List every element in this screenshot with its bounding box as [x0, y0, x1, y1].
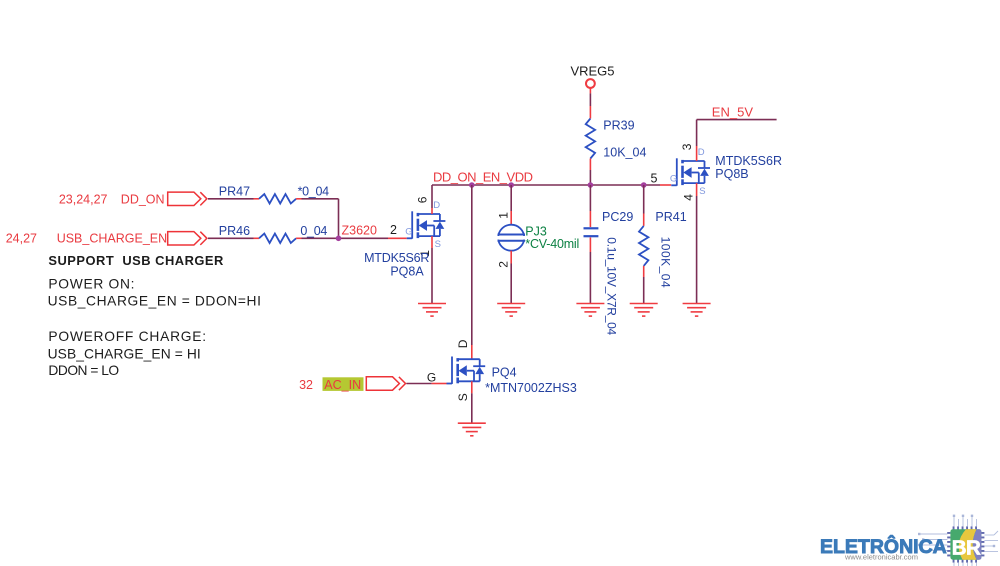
input flag AC_IN — [366, 377, 405, 390]
wire PJ3 pin 2 — [510, 251, 512, 304]
svg-text:USB_CHARGE_EN = HI: USB_CHARGE_EN = HI — [48, 346, 201, 361]
capacitor PC29 — [584, 228, 599, 236]
resistor PR41 — [639, 226, 648, 266]
svg-text:100K_04: 100K_04 — [659, 237, 673, 289]
wire PC29 top — [589, 185, 591, 227]
wire PQ4 drain — [471, 185, 473, 359]
svg-text:USB_CHARGE_EN = DDON=HI: USB_CHARGE_EN = DDON=HI — [48, 293, 262, 308]
svg-text:32: 32 — [299, 378, 313, 392]
svg-text:www.eletronicabr.com: www.eletronicabr.com — [844, 553, 918, 562]
wire PQ8B drain to EN_5V — [697, 120, 777, 161]
svg-text:1: 1 — [497, 212, 511, 219]
svg-text:USB_CHARGE_EN: USB_CHARGE_EN — [57, 231, 167, 245]
svg-text:S: S — [456, 393, 470, 401]
svg-text:AC_IN: AC_IN — [324, 378, 361, 392]
svg-text:DD_ON_EN_VDD: DD_ON_EN_VDD — [433, 170, 533, 185]
svg-text:G: G — [670, 173, 677, 184]
transistor PQ8B — [671, 158, 710, 185]
wire VREG5 to PR39 — [589, 88, 591, 119]
wire PQ8A drain — [431, 185, 433, 214]
svg-text:VREG5: VREG5 — [570, 64, 614, 79]
logo chip pins — [947, 526, 984, 562]
svg-text:*0_04: *0_04 — [298, 184, 330, 198]
svg-text:D: D — [456, 339, 470, 348]
wire PR47 to corner — [296, 199, 338, 239]
highlight AC_IN — [323, 377, 364, 391]
svg-text:S: S — [699, 186, 705, 197]
jumper PJ3 — [497, 225, 526, 251]
svg-text:PC29: PC29 — [602, 210, 633, 224]
svg-text:Z3620: Z3620 — [342, 224, 377, 238]
wire PR46 to PQ8A gate — [296, 237, 407, 239]
ground PQ4 — [458, 423, 486, 436]
svg-text:DDON = LO: DDON = LO — [48, 363, 119, 378]
svg-text:2: 2 — [390, 223, 397, 237]
wire PQ8A source — [431, 236, 433, 303]
ground PQ8A — [418, 304, 446, 317]
svg-text:PR46: PR46 — [219, 224, 250, 238]
svg-text:G: G — [405, 226, 412, 237]
svg-text:PR41: PR41 — [655, 210, 686, 224]
wire AC_IN to PQ4 gate — [406, 383, 446, 385]
junction at PJ3 — [508, 182, 514, 188]
ground PJ3 — [497, 304, 525, 317]
logo chip BR — [950, 529, 981, 560]
svg-text:23,24,27: 23,24,27 — [59, 192, 108, 206]
wire PQ8B source — [696, 183, 698, 303]
wire main net DD_ON_EN_VDD — [432, 184, 671, 186]
transistor PQ8A — [407, 211, 446, 238]
svg-text:0_04: 0_04 — [300, 224, 327, 238]
junction Z3620 — [336, 236, 342, 242]
svg-text:24,27: 24,27 — [6, 231, 37, 245]
svg-text:EN_5V: EN_5V — [712, 105, 754, 120]
svg-text:2: 2 — [497, 261, 511, 268]
svg-text:D: D — [433, 200, 440, 211]
svg-text:PR39: PR39 — [603, 119, 634, 133]
svg-text:10K_04: 10K_04 — [603, 146, 646, 160]
svg-text:DD_ON: DD_ON — [121, 192, 165, 206]
svg-text:6: 6 — [416, 196, 430, 203]
svg-text:S: S — [435, 239, 441, 250]
resistor PR47 — [259, 194, 296, 203]
svg-text:PQ8B: PQ8B — [715, 167, 748, 181]
resistor PR46 — [259, 234, 296, 243]
junction at PC29 — [588, 182, 594, 188]
power symbol VREG5 circle — [586, 79, 595, 88]
wire PC29 bottom — [589, 238, 591, 304]
logo trace pads — [918, 515, 995, 552]
ground PR41 — [630, 304, 658, 317]
wire PJ3 pin 1 — [510, 185, 512, 225]
input flag DD_ON — [168, 192, 207, 205]
svg-text:PR47: PR47 — [219, 184, 250, 198]
svg-text:POWEROFF CHARGE:: POWEROFF CHARGE: — [48, 329, 206, 344]
svg-text:3: 3 — [680, 143, 694, 150]
svg-text:*CV-40mil: *CV-40mil — [525, 237, 579, 251]
wire PQ4 source — [471, 381, 473, 423]
ground PQ8B — [683, 304, 711, 317]
svg-text:D: D — [698, 147, 705, 158]
svg-text:PQ4: PQ4 — [492, 366, 517, 380]
input flag USB_CHARGE_EN — [168, 232, 207, 245]
wire PR41 bottom — [643, 266, 645, 304]
svg-text:5: 5 — [651, 171, 658, 185]
transistor PQ4 — [447, 357, 486, 384]
svg-text:*MTN7002ZHS3: *MTN7002ZHS3 — [485, 381, 577, 395]
svg-text:MTDK5S6R: MTDK5S6R — [364, 251, 429, 265]
svg-text:SUPPORT USB CHARGER: SUPPORT USB CHARGER — [48, 253, 224, 268]
ground PC29 — [576, 304, 604, 317]
junction at PR41 — [641, 182, 647, 188]
wire DD_ON to PR47 — [208, 198, 259, 200]
svg-text:4: 4 — [682, 194, 696, 201]
svg-text:POWER ON:: POWER ON: — [48, 276, 135, 291]
logo circuit traces — [920, 517, 998, 566]
resistor PR39 — [586, 119, 595, 159]
wire PR39 to net — [589, 159, 591, 186]
wire PR41 top — [643, 185, 645, 226]
svg-text:0.1u_10V_X7R_04: 0.1u_10V_X7R_04 — [605, 237, 619, 335]
svg-text:PQ8A: PQ8A — [390, 265, 424, 279]
svg-text:MTDK5S6R: MTDK5S6R — [715, 154, 782, 168]
junction at PQ4 drain — [469, 182, 475, 188]
svg-text:G: G — [427, 370, 436, 384]
wire USB_CHARGE_EN to PR46 — [208, 237, 259, 239]
svg-text:BR: BR — [952, 536, 981, 559]
